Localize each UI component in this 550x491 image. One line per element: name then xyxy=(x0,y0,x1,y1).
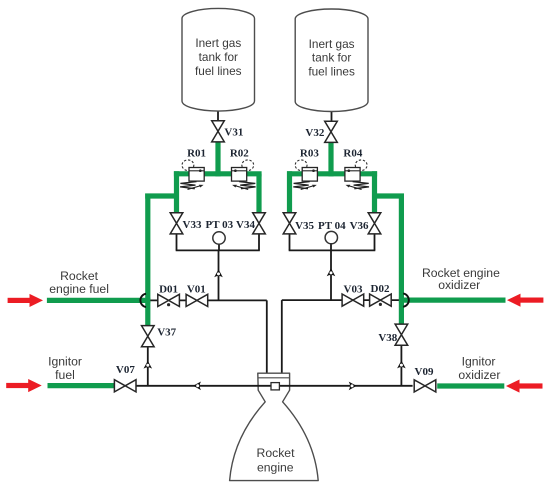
valve V37 xyxy=(142,326,155,347)
flow marker on ignitor pipe right (points right) xyxy=(349,382,357,391)
wire: tank1 to V31 xyxy=(217,111,219,122)
svg-text:engine: engine xyxy=(257,461,294,475)
svg-text:V07: V07 xyxy=(116,364,135,376)
svg-text:oxidizer: oxidizer xyxy=(438,278,480,292)
wire: stub to V37 xyxy=(145,300,150,326)
svg-text:V03: V03 xyxy=(344,283,363,295)
svg-text:fuel lines: fuel lines xyxy=(308,64,355,78)
wire: main ox vertical xyxy=(399,194,404,301)
valve V07 xyxy=(114,380,136,392)
regulator R01 xyxy=(180,160,204,190)
svg-text:V32: V32 xyxy=(305,127,324,139)
wire: V37 to ignitor pipe xyxy=(147,347,149,386)
svg-text:V09: V09 xyxy=(415,366,434,378)
svg-text:R03: R03 xyxy=(300,148,319,160)
svg-text:D02: D02 xyxy=(371,283,390,295)
wire: V38 to ignitor pipe xyxy=(400,345,402,386)
flow marker on V37 leg xyxy=(144,361,153,369)
wire: left branch to main fuel vertical xyxy=(145,193,176,198)
svg-text:oxidizer: oxidizer xyxy=(458,368,500,382)
svg-text:D01: D01 xyxy=(159,283,178,295)
regulator R03 xyxy=(293,160,317,190)
svg-text:tank for: tank for xyxy=(199,50,238,64)
wire: V31 to regulator manifold (fuel) xyxy=(215,141,220,176)
red arrow: ignitor fuel inlet xyxy=(6,379,42,392)
valve V31 xyxy=(212,121,225,142)
wire: rocket engine oxidizer inlet xyxy=(399,298,506,303)
wire: PT03 stem xyxy=(218,244,220,250)
ignitor square on engine xyxy=(271,383,279,390)
flow marker on manifold2 drop xyxy=(327,268,336,276)
svg-text:Inert gas: Inert gas xyxy=(309,37,355,51)
red arrow: rocket engine fuel inlet xyxy=(8,294,43,307)
wire: ignitor fuel inlet xyxy=(48,383,115,388)
wire: V35 to manifold2 xyxy=(289,234,291,251)
rocket engine nozzle and injector block xyxy=(230,373,319,480)
svg-text:engine fuel: engine fuel xyxy=(49,282,109,296)
wire: ignitor pipe run xyxy=(136,385,412,387)
svg-text:V34: V34 xyxy=(236,219,255,231)
valve V35 xyxy=(283,213,296,234)
svg-text:Ignitor: Ignitor xyxy=(48,354,82,368)
tank T1 (inert gas, fuel side) xyxy=(182,8,255,111)
valve V32 xyxy=(325,121,338,142)
svg-text:R04: R04 xyxy=(343,147,362,159)
wire: manifold2 drop to ox pipe xyxy=(330,250,332,300)
svg-text:PT 04: PT 04 xyxy=(318,220,346,232)
wire: right branch to main ox vertical xyxy=(375,193,405,198)
wire: ox pipe V03/D02 run xyxy=(282,299,399,301)
check valve D01 xyxy=(158,294,180,306)
wire: tank2 to V32 xyxy=(331,112,333,122)
svg-text:fuel lines: fuel lines xyxy=(195,64,242,78)
valve V38 xyxy=(395,324,408,345)
wire: V32 to regulator manifold (ox) xyxy=(328,142,333,177)
svg-text:tank for: tank for xyxy=(312,51,351,65)
flow marker on manifold1 drop xyxy=(214,269,223,277)
wire: V33 to manifold1 xyxy=(176,234,178,251)
svg-text:Rocket: Rocket xyxy=(257,446,296,460)
svg-text:V31: V31 xyxy=(224,126,243,138)
svg-text:R01: R01 xyxy=(187,148,206,160)
wire: manifold1 drop to fuel pipe xyxy=(218,250,220,300)
wire: manifold1 horizontal xyxy=(176,249,260,251)
svg-text:V38: V38 xyxy=(378,332,397,344)
check valve D02 xyxy=(370,294,392,306)
wire: V36 to manifold2 xyxy=(374,234,376,251)
wire: stub to V38 xyxy=(399,300,404,324)
valve V09 xyxy=(414,380,436,392)
svg-text:V37: V37 xyxy=(157,327,176,339)
valve V34 xyxy=(253,213,266,234)
node: ox junction arc xyxy=(403,293,409,306)
wire: rocket engine fuel inlet xyxy=(47,298,150,303)
svg-text:Rocket: Rocket xyxy=(60,269,99,283)
wire: ox pipe down to engine xyxy=(281,300,283,373)
svg-text:V35: V35 xyxy=(295,220,314,232)
svg-text:fuel: fuel xyxy=(55,368,75,382)
wire: main fuel vertical xyxy=(145,194,150,301)
svg-text:R02: R02 xyxy=(230,147,249,159)
flow marker on V38 leg xyxy=(397,361,406,369)
svg-text:PT 03: PT 03 xyxy=(205,219,233,231)
svg-text:V36: V36 xyxy=(350,220,369,232)
wire: drop to V35 xyxy=(287,171,292,213)
wire: fuel regulator manifold horizontal xyxy=(174,171,262,176)
regulator R02 (mirrored) xyxy=(232,160,256,190)
wire: PT04 stem xyxy=(330,243,332,250)
valve V33 xyxy=(170,213,183,234)
svg-text:V01: V01 xyxy=(187,284,206,296)
pressure transducer PT03 xyxy=(213,232,225,244)
red arrow: ignitor oxidizer inlet xyxy=(506,380,543,393)
red arrow: rocket engine oxidizer inlet xyxy=(507,294,543,307)
valve V36 xyxy=(368,213,381,234)
wire: manifold2 horizontal xyxy=(289,249,376,251)
node: fuel junction arc xyxy=(140,294,146,307)
valve V01 xyxy=(186,294,208,306)
svg-text:V33: V33 xyxy=(183,219,202,231)
wire: fuel pipe D01/V01 run xyxy=(150,299,266,301)
wire: drop to V34 xyxy=(256,174,261,213)
svg-text:Ignitor: Ignitor xyxy=(462,354,496,368)
tank T2 (inert gas, ox side) xyxy=(295,9,368,112)
pressure transducer PT04 xyxy=(325,231,337,243)
wire: drop to V36 xyxy=(372,171,377,213)
wire: fuel pipe down to engine xyxy=(266,300,268,373)
valve V03 xyxy=(342,294,364,306)
wire: ox regulator manifold horizontal xyxy=(287,171,377,176)
wire: ignitor oxidizer inlet xyxy=(437,383,504,388)
wire: drop to V33 xyxy=(174,171,179,213)
regulator R04 (mirrored) xyxy=(345,160,369,190)
wire: V34 to manifold1 xyxy=(258,234,260,251)
svg-text:Inert gas: Inert gas xyxy=(195,36,241,50)
flow marker on ignitor pipe left (points left) xyxy=(193,382,201,391)
